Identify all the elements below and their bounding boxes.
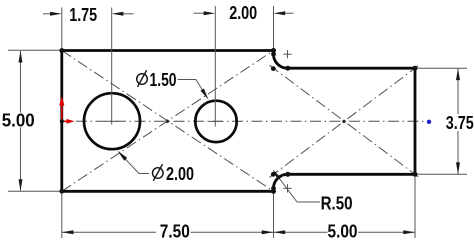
vertex dot top fillet start: [271, 52, 276, 57]
svg-text:R.50: R.50: [321, 194, 353, 214]
svg-text:5.00: 5.00: [328, 222, 358, 242]
fillet center mark top: [283, 50, 291, 58]
svg-text:5.00: 5.00: [2, 111, 35, 131]
origin dot: [60, 119, 64, 123]
construction diagonal right rect B: [270, 66, 419, 178]
extension line big circle center: [111, 8, 113, 125]
vertex dot top fillet end: [285, 66, 290, 71]
dimension 5.00 bottom: [274, 177, 416, 242]
vertex dot right top corner: [413, 66, 418, 71]
blue endpoint dot: [427, 120, 431, 124]
vertex dot bottom fillet start: [271, 186, 276, 191]
center mark small circle: [209, 120, 223, 122]
dimension 1.75: [43, 5, 134, 25]
label R.50 with leader: [273, 169, 353, 213]
svg-text:2.00: 2.00: [166, 164, 194, 184]
extension line step top: [273, 6, 275, 49]
left diagonals crossing point: [166, 120, 169, 123]
label D1.50 with leader: [137, 70, 209, 100]
vertex dot right bottom corner: [413, 172, 418, 177]
horizontal centerline: [76, 120, 427, 122]
vertex dot bottom virtual corner: [271, 172, 276, 177]
construction diagonal right rect A: [270, 65, 419, 177]
svg-text:2.00: 2.00: [229, 3, 257, 23]
right diagonals crossing point: [342, 120, 345, 123]
dimension 7.50 bottom: [62, 194, 274, 242]
vertex dot top virtual corner: [271, 66, 276, 71]
vertex dot bottom fillet end: [285, 172, 290, 177]
construction diagonal left rect B: [62, 51, 274, 192]
vertex dot step top corner: [271, 48, 276, 53]
vertex dot top-left corner: [59, 48, 64, 53]
part outline: [62, 51, 415, 192]
hole circle D2.00: [84, 93, 140, 149]
svg-text:1.75: 1.75: [69, 5, 97, 25]
center mark big circle: [105, 120, 119, 122]
svg-text:3.75: 3.75: [446, 113, 474, 133]
extension line small circle center: [214, 6, 216, 127]
extension line left edge top: [61, 8, 63, 49]
svg-text:1.50: 1.50: [150, 70, 177, 90]
dimension 3.75 right: [418, 68, 474, 174]
label D2.00 with leader: [118, 151, 195, 185]
fillet center mark bottom: [283, 184, 291, 192]
svg-text:7.50: 7.50: [160, 222, 190, 242]
hole circle D1.50: [195, 101, 236, 142]
construction diagonal left rect A: [62, 51, 274, 192]
dimension 5.00 left: [2, 50, 61, 191]
dimension 2.00: [194, 3, 294, 23]
origin marker red arrows: [59, 96, 74, 124]
vertex dot step bottom corner: [271, 189, 276, 194]
vertex dot bottom-left corner: [59, 189, 64, 194]
